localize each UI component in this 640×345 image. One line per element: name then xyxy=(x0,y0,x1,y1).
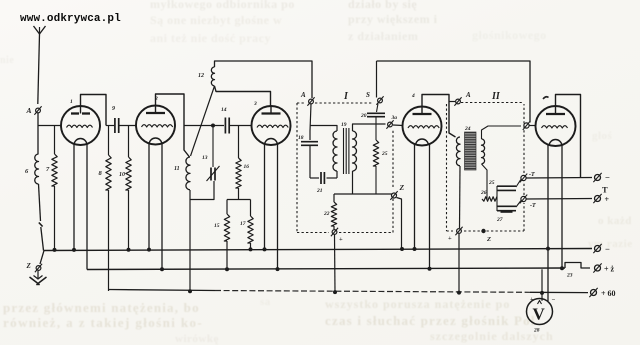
svg-text:27: 27 xyxy=(496,217,503,223)
node -T switch upper xyxy=(521,175,526,180)
svg-text:T: T xyxy=(602,185,608,195)
wire bracket resistors 15 17 xyxy=(227,199,251,201)
svg-text:7: 7 xyxy=(46,166,50,173)
svg-text:8: 8 xyxy=(99,170,103,177)
wire tube4 plate xyxy=(422,95,456,138)
resistor 26 xyxy=(482,197,497,201)
resistor 15 xyxy=(226,200,228,215)
capacitor 25 xyxy=(497,185,516,187)
ground bus xyxy=(44,249,592,251)
svg-text:20: 20 xyxy=(360,113,367,119)
svg-text:25: 25 xyxy=(381,151,388,157)
switch box II bottom xyxy=(457,229,462,234)
wire cap25 to switch T1 xyxy=(516,180,521,188)
terminal minus T xyxy=(595,175,601,181)
wire tube2 filament legs xyxy=(148,143,150,250)
svg-text:II: II xyxy=(491,91,501,102)
tube V4 xyxy=(403,107,442,146)
resistor 23 xyxy=(565,263,590,269)
voltmeter 28 xyxy=(527,299,553,325)
transformer 24 primary xyxy=(456,137,460,166)
svg-text:S: S xyxy=(366,91,370,99)
svg-text:+: + xyxy=(339,236,343,243)
wire resistor7 to bus xyxy=(54,186,56,250)
ground electrode Z xyxy=(40,251,44,265)
plate supply bus +60 xyxy=(109,290,216,291)
svg-text:28: 28 xyxy=(533,328,540,334)
capacitor 27 xyxy=(497,205,516,207)
wire antenna lead-in xyxy=(38,34,40,104)
svg-text:+: + xyxy=(448,235,452,242)
inductor 12 regeneration coil xyxy=(211,67,214,86)
svg-text:Z: Z xyxy=(26,262,32,270)
svg-text:26: 26 xyxy=(480,190,487,196)
terminal plus T xyxy=(595,196,601,202)
svg-text:-T: -T xyxy=(530,203,536,209)
node -T switch lower xyxy=(521,196,526,201)
tube V2 xyxy=(136,106,175,145)
resistor 16 grid leak xyxy=(238,126,240,159)
wire to +60 bus xyxy=(334,235,337,293)
svg-text:−: − xyxy=(605,244,610,254)
wire primary bottom to switch xyxy=(459,166,462,228)
filament bus xyxy=(87,268,565,270)
resistor 10 xyxy=(128,126,130,158)
wire cap27 to switch T2 xyxy=(516,201,521,208)
svg-text:V: V xyxy=(533,305,546,324)
node grid switch tube5 xyxy=(524,123,529,128)
wire resistor10 to bus xyxy=(128,190,130,250)
wire coil12 to tube3 plate xyxy=(215,86,271,107)
svg-text:11: 11 xyxy=(174,166,180,172)
wire antenna down to coil xyxy=(37,113,39,154)
svg-text:3a: 3a xyxy=(391,115,398,121)
transformer 19 core xyxy=(343,128,345,174)
wire top feed line xyxy=(377,61,531,123)
svg-text:9: 9 xyxy=(112,106,115,112)
junction dots ground bus xyxy=(53,248,57,252)
antenna xyxy=(34,26,46,34)
resistor 8 xyxy=(106,125,114,127)
tube V3 xyxy=(252,106,291,145)
resistor 17 xyxy=(250,200,252,217)
watermark text www.odkrywca.pl xyxy=(20,13,121,25)
transformer 19 secondary xyxy=(353,131,357,171)
svg-text:16: 16 xyxy=(244,164,250,170)
junction dots filament bus xyxy=(160,267,164,271)
wire tube3 filament legs xyxy=(264,144,266,251)
svg-text:14: 14 xyxy=(221,107,227,113)
wire coil12 to top xyxy=(215,61,313,98)
svg-text:1: 1 xyxy=(70,99,73,105)
junction dots plate bus xyxy=(188,289,192,293)
svg-text:21: 21 xyxy=(316,188,323,194)
wire secondary top to grid switch xyxy=(482,126,522,139)
terminal minus bus xyxy=(595,246,601,252)
svg-text:12: 12 xyxy=(198,73,204,79)
wire tube1 plate xyxy=(81,95,107,126)
amplifier unit box II dashed xyxy=(446,104,448,231)
svg-text:18: 18 xyxy=(298,135,304,141)
variable capacitor 13 xyxy=(212,126,214,168)
svg-text:-T: -T xyxy=(529,172,535,178)
svg-text:6: 6 xyxy=(25,168,29,175)
transformer 19 primary xyxy=(310,126,337,132)
transformer 24 core xyxy=(465,132,477,170)
resistor 7 xyxy=(54,126,56,155)
svg-text:+ ż: + ż xyxy=(604,265,615,274)
svg-text:13: 13 xyxy=(202,155,208,161)
svg-text:Z: Z xyxy=(486,236,491,243)
wire resistor16 down xyxy=(238,188,240,200)
capacitor 14 xyxy=(224,118,226,134)
svg-text:I: I xyxy=(343,91,349,102)
svg-text:A: A xyxy=(465,91,471,99)
svg-text:Z: Z xyxy=(399,183,405,192)
svg-text:3: 3 xyxy=(253,101,257,107)
svg-text:−: − xyxy=(552,297,556,304)
capacitor 21 xyxy=(310,177,319,179)
svg-text:+: + xyxy=(605,195,610,204)
node Z box II xyxy=(481,229,485,233)
svg-text:A: A xyxy=(300,91,306,99)
wire tube2 plate to coil11 xyxy=(156,94,190,157)
wire secondary bottom xyxy=(482,164,488,199)
wire voltmeter left lead xyxy=(541,269,543,301)
svg-text:A: A xyxy=(26,106,32,115)
wire cap9 to tube2 grid xyxy=(119,125,137,127)
svg-text:10: 10 xyxy=(119,172,125,178)
capacitor 18 xyxy=(309,131,311,140)
svg-text:22: 22 xyxy=(323,211,330,217)
svg-text:19: 19 xyxy=(341,122,347,128)
terminal plus 60 xyxy=(591,290,597,296)
capacitor 20 xyxy=(377,104,379,113)
svg-text:23: 23 xyxy=(566,273,573,279)
wire resistor8 to +60 bus xyxy=(108,190,110,291)
svg-text:4: 4 xyxy=(411,93,415,99)
inductor 11 xyxy=(186,157,190,190)
svg-text:+ 60: + 60 xyxy=(601,289,616,298)
switch box I bottom xyxy=(333,226,335,229)
wire tube5 filament legs xyxy=(547,145,549,302)
svg-text:−: − xyxy=(605,173,610,183)
wire tube4 filament legs xyxy=(414,144,416,250)
wire box II top dashed link xyxy=(461,102,524,104)
wire output T lower xyxy=(526,198,592,201)
wire Z to ground bus xyxy=(397,198,402,251)
terminal plus Z xyxy=(595,265,601,271)
wire tube5 plate xyxy=(556,95,581,178)
resistor 25 xyxy=(373,140,378,166)
wire coil6 to bottom bus xyxy=(39,184,41,221)
svg-text:17: 17 xyxy=(240,221,246,227)
wire to +60 bus xyxy=(458,234,460,293)
capacitor 9 xyxy=(114,118,116,133)
wire box I bottom junction xyxy=(334,193,392,195)
wire box I left branch xyxy=(310,104,311,131)
wire output T upper xyxy=(526,177,592,180)
wire slanted feedback xyxy=(191,86,215,156)
svg-text:+: + xyxy=(530,297,534,303)
transformer 24 secondary xyxy=(482,139,485,164)
wire grid bus tube1 xyxy=(38,125,61,127)
tube V1 xyxy=(61,106,100,145)
wire tube1 filament legs xyxy=(73,144,75,251)
svg-text:25: 25 xyxy=(488,180,495,186)
resistor 22 xyxy=(333,194,335,202)
svg-text:24: 24 xyxy=(464,126,471,132)
tube V5 xyxy=(536,106,576,146)
detector unit box I dashed xyxy=(297,102,306,104)
wire grid line tube3 xyxy=(184,125,224,127)
wire LC bottom bracket xyxy=(190,181,214,200)
svg-text:15: 15 xyxy=(214,223,220,229)
inductor 6 xyxy=(35,154,39,184)
wire RC network xyxy=(496,186,498,211)
